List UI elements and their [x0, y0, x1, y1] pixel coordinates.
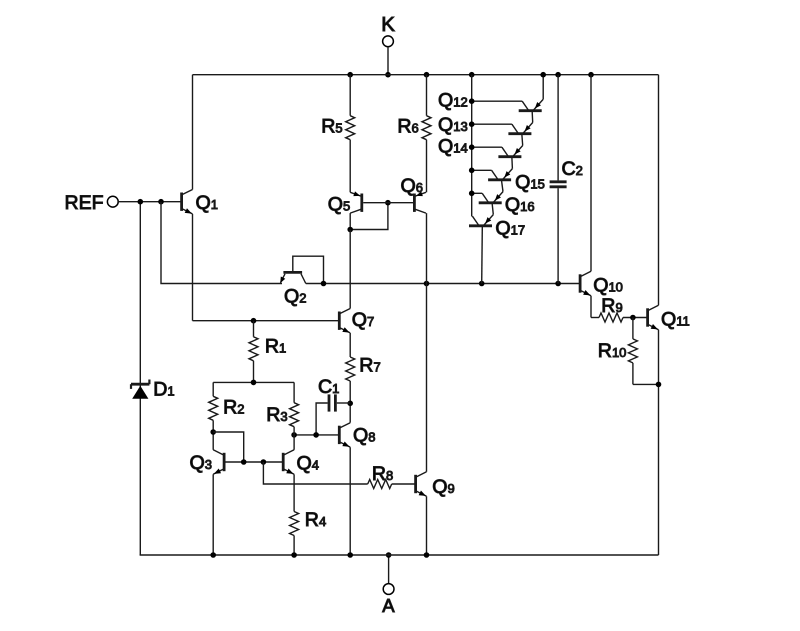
svg-text:A: A — [382, 595, 395, 616]
svg-text:REF: REF — [65, 192, 104, 214]
svg-text:K: K — [381, 13, 395, 36]
